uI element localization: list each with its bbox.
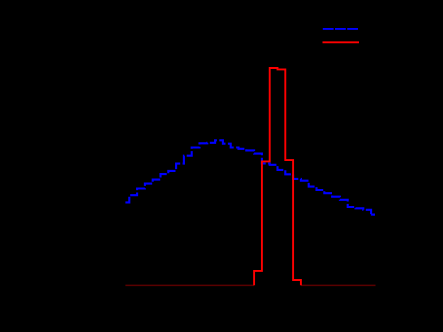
legend blue dashed sample line xyxy=(323,28,359,30)
blue curve final half-bin dash xyxy=(371,214,375,216)
red dim baseline left segment xyxy=(125,284,254,286)
blue dashed step histogram curve xyxy=(125,140,375,214)
red solid step histogram curve with central spike xyxy=(254,68,301,285)
legend red solid sample line xyxy=(323,41,360,43)
red dim baseline right segment xyxy=(301,284,376,286)
